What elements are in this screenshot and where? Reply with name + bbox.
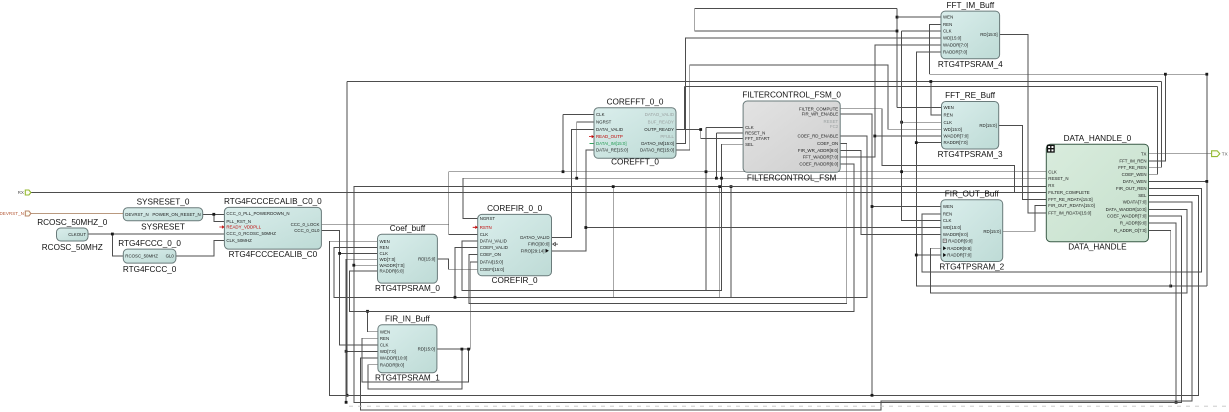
svg-text:FIR_WR_ENABLE: FIR_WR_ENABLE [802,112,839,117]
svg-text:Coef_buff: Coef_buff [390,224,426,233]
junction [111,233,114,236]
wire COREFFT DATAO_IM to FFT_IM_Buff WD [676,38,941,143]
svg-text:FFT_IM_REN: FFT_IM_REN [1119,159,1146,164]
svg-text:RADDR[6:0]: RADDR[6:0] [380,269,404,274]
wire into Coef_buff WD [346,258,377,260]
junction [612,185,615,188]
svg-text:RADDR[9:0]: RADDR[9:0] [948,239,972,244]
svg-text:REN: REN [380,245,389,250]
junction [461,348,464,351]
junction [871,205,874,208]
svg-text:RCOSC_50MHZ: RCOSC_50MHZ [42,243,103,252]
svg-text:FIRO[29:14]: FIRO[29:14] [521,248,545,253]
svg-text:FFT_START: FFT_START [745,136,770,141]
svg-text:RTG4FCCC_0: RTG4FCCC_0 [123,265,177,274]
wire into FFT_RE_Buff CLK [902,121,942,123]
junction [346,394,349,397]
junction [929,80,932,83]
svg-text:FIR_OUT_RDATA[15:0]: FIR_OUT_RDATA[15:0] [1048,203,1094,208]
svg-text:COEFI[15:0]: COEFI[15:0] [480,267,504,272]
wire FIR_WR_ENABLE drop to bottom trunk [840,114,872,395]
wire COEF_RADDR loop to Coef_buff RADDR [349,164,854,311]
svg-text:DATAO_RE[15:0]: DATAO_RE[15:0] [640,148,674,153]
junction [584,226,587,229]
svg-text:WADDR[7:0]: WADDR[7:0] [380,263,405,268]
svg-text:RSTN: RSTN [480,225,492,230]
svg-text:DATAI_VALID: DATAI_VALID [480,239,507,244]
svg-text:DATAI[15:0]: DATAI[15:0] [480,260,503,265]
svg-text:RADDR[7:0]: RADDR[7:0] [947,253,971,258]
wire COREFFT OUTP_READY to FILTERCONTROL FFT_START [676,130,743,139]
svg-text:DATAO_VALID: DATAO_VALID [520,235,549,240]
svg-text:WADDR[7:0]: WADDR[7:0] [943,43,968,48]
block FILTERCONTROL_FSM_0 [742,91,841,183]
svg-text:COREFIR_0_0: COREFIR_0_0 [487,204,543,213]
junction [1164,73,1167,76]
wire FFT_RE_Buff RD to FFT_RE_RDATA [999,125,1047,199]
svg-text:TX: TX [1222,151,1228,156]
block RCOSC_50MHZ_0 [37,218,108,252]
svg-text:COEFI_VALID: COEFI_VALID [480,245,508,250]
svg-text:PLL_RST_N: PLL_RST_N [226,219,251,224]
wire into FILTERCONTROL CLK [706,126,743,128]
wire FIR_OUT_REN loop to FIR_OUT_Buff REN [922,188,1201,272]
block FIR_OUT_Buff (RTG4TPSRAM_2) [939,189,1004,271]
svg-text:SYSRESET_0: SYSRESET_0 [137,198,190,207]
svg-text:NGRST: NGRST [480,216,496,221]
block SYSRESET_0 [123,198,202,232]
svg-text:FIR_WR_ADDR[9:0]: FIR_WR_ADDR[9:0] [798,148,838,153]
svg-text:DATA_HANDLE: DATA_HANDLE [1068,243,1127,252]
svg-text:RTG4TPSRAM_0: RTG4TPSRAM_0 [375,284,440,293]
wire FFT_IM_REN riser [1149,74,1166,161]
svg-text:CCC_0_GL0: CCC_0_GL0 [294,228,320,233]
wire bottom rung to R_ADDR_O loop [1171,285,1207,287]
svg-text:FFT_IM_Buff: FFT_IM_Buff [946,1,994,10]
svg-text:R_ADDR_O[7:0]: R_ADDR_O[7:0] [1114,228,1146,233]
junction [352,264,355,267]
junction [1175,401,1178,404]
junction [1205,73,1208,76]
wire top trunk y86 [684,86,1157,88]
svg-text:SEL: SEL [745,142,754,147]
svg-text:FFT_WADDR[7:0]: FFT_WADDR[7:0] [803,155,838,160]
wire CLKOUT to CCC_0_RCOSC_50MHZ [88,233,224,235]
block FIR_IN_Buff (RTG4TPSRAM_1) [375,314,440,382]
svg-text:RD[15:0]: RD[15:0] [979,123,996,128]
svg-text:RD[15:0]: RD[15:0] [980,32,997,37]
wire branch to PLL_RST_N [214,214,225,221]
svg-text:WD[15:0]: WD[15:0] [943,225,961,230]
wire branch to RTG4FCCC RCOSC_50MHZ [112,234,123,256]
wire drop to FFT_IM_Buff REN [930,24,941,74]
svg-text:R_ADDR[9:0]: R_ADDR[9:0] [1120,221,1147,226]
wire COEF_WADDR loop up to DATA_HANDLE RX [354,187,1182,403]
wire DEVRST_N [31,213,123,215]
svg-text:DEVRST_N: DEVRST_N [125,212,148,217]
wire COREFIR COEFI_VALID drop [455,248,478,298]
svg-text:COEF_ON: COEF_ON [817,141,838,146]
svg-text:BUF_READY: BUF_READY [648,120,674,125]
svg-text:COEF_ON: COEF_ON [480,252,501,257]
svg-text:COREFIR_0: COREFIR_0 [492,276,538,285]
svg-text:WEN: WEN [380,239,390,244]
wire U loop under FIR_IN_Buff [368,349,462,389]
wire SEL loop around bottom to Coef_buff WEN [329,196,1198,396]
svg-text:POWER_ON_RESET_N: POWER_ON_RESET_N [152,212,200,217]
svg-text:FFT_RE_REN: FFT_RE_REN [1118,165,1146,170]
svg-text:WEN: WEN [943,15,953,20]
svg-text:RESET_N: RESET_N [745,131,765,136]
wire COREFIR DATAO_VALID to COREFFT DATAI_VALID [552,130,595,238]
svg-text:CCC_0_PLL_POWERDOWN_N: CCC_0_PLL_POWERDOWN_N [226,211,289,216]
wire DATA_WEN trunk down right side [1206,74,1208,286]
junction [366,310,369,313]
svg-text:FIR_OUT_Buff: FIR_OUT_Buff [945,189,1000,198]
wire riser under COREFFT [612,187,614,298]
junction [720,177,723,180]
junction [896,30,899,33]
wire top trunk y8 [695,7,897,9]
wire into FIR_IN_Buff REN [362,337,378,339]
junction [575,177,578,180]
wire COREFIR DATAI_VALID loop to FILTERCONTROL SEL [462,144,743,290]
svg-text:RTG4TPSRAM_2: RTG4TPSRAM_2 [939,263,1004,272]
svg-text:WD[15:0]: WD[15:0] [944,127,962,132]
wire into COREFFT NGRST [577,121,594,123]
svg-text:RCOSC_50MHZ_0: RCOSC_50MHZ_0 [37,218,108,227]
block FFT_IM_Buff (RTG4TPSRAM_4) [938,1,1003,69]
svg-text:WADDR[10:0]: WADDR[10:0] [380,356,407,361]
svg-text:COEF_RD_ENABLE: COEF_RD_ENABLE [797,133,838,138]
svg-text:CLK: CLK [943,218,952,223]
wire into FFT_RE_Buff WEN [897,106,942,108]
wire FIR_IN_Buff RD to COREFIR DATAI [437,262,478,349]
svg-text:DATA_WEN: DATA_WEN [1123,179,1147,184]
junction [345,401,348,404]
svg-text:CLK: CLK [1048,169,1057,174]
junction [454,296,457,299]
wire CCC_0_LOCK to COREFIR column [321,223,448,225]
svg-text:RX: RX [1048,183,1054,188]
input port RX [18,190,31,195]
svg-text:FFT_IM_RDATA[15:0]: FFT_IM_RDATA[15:0] [1048,210,1091,215]
wire FILTER_COMPUTE to FILTER_COMPLETE [840,109,1014,193]
wire global CLK trunk to DATA_HANDLE CLK [449,171,1047,173]
svg-text:RTG4TPSRAM_1: RTG4TPSRAM_1 [375,374,440,383]
svg-text:WDATA[7:0]: WDATA[7:0] [1123,200,1147,205]
svg-text:SYSRESET: SYSRESET [141,223,185,232]
wire left trunk riser x347 [346,82,348,396]
wire POWER_ON_RESET_N to CCC_0_PLL_POWERDOWN_N [203,213,225,215]
svg-text:RTG4FCCC_0_0: RTG4FCCC_0_0 [118,239,181,248]
junction [915,254,918,257]
svg-text:FIR_OUT_REN: FIR_OUT_REN [1116,186,1147,191]
junction [873,135,876,138]
wire COEF_WEN riser [1149,87,1158,175]
svg-text:WD[15:0]: WD[15:0] [943,36,961,41]
svg-text:CCC_0_LOCK: CCC_0_LOCK [291,222,320,227]
wire branch to FIR_IN_Buff WD [346,350,378,352]
svg-text:TX: TX [1141,151,1147,156]
wire WEN riser [896,8,898,107]
svg-text:COEF_WEN: COEF_WEN [1122,172,1147,177]
svg-text:PFULL: PFULL [660,134,674,139]
svg-text:CLK: CLK [943,29,952,34]
wire reset riser to FILTERCONTROL RESET_N [715,133,717,178]
wire FIR_OUT_Buff RD to FIR_OUT_RDATA [1003,206,1047,232]
wire CCC_0_GL0 down to FIR_IN_Buff CLK [321,231,378,346]
svg-text:WADDR[7:0]: WADDR[7:0] [944,134,969,139]
wire drop joining OUTP_READY node [683,87,685,130]
svg-text:WEN: WEN [943,204,953,209]
svg-text:FIRO[30:0]: FIRO[30:0] [528,242,549,247]
svg-text:READ_OUTP: READ_OUTP [596,134,623,139]
junction [730,185,733,188]
svg-text:RD[15:0]: RD[15:0] [418,256,435,261]
svg-text:RADDR[9:0]: RADDR[9:0] [380,362,404,367]
svg-text:FIR_IN_Buff: FIR_IN_Buff [385,314,431,323]
svg-text:FFT_RE_Buff: FFT_RE_Buff [945,91,996,100]
svg-text:RCOSC_50MHZ: RCOSC_50MHZ [125,253,158,258]
svg-text:FILTER_COMPLETE: FILTER_COMPLETE [1048,190,1089,195]
wire branch to COREFFT DATAI_RE [586,150,594,227]
wire WDATA loop to FIR_IN_Buff WADDR [361,202,1193,410]
junction [1205,180,1208,183]
wire reset drop to COREFIR NGRST [463,178,478,218]
wire CLK branch riser to COREFFT [562,114,564,171]
svg-text:RADDR[7:0]: RADDR[7:0] [943,50,967,55]
wire riser x731 [730,187,732,298]
wire Coef_buff RD to COREFIR COEFI [437,259,477,269]
junction [699,128,702,131]
junction [871,394,874,397]
block RTG4FCCCECALIB_C0_0 [219,197,322,259]
wire DATA_WEN stub [1149,180,1207,182]
junction [1169,285,1172,288]
wire branch to FFT_RE_Buff RADDR [916,142,941,144]
block FFT_RE_Buff (RTG4TPSRAM_3) [938,91,1003,159]
block DATA_HANDLE_0 [1046,134,1148,252]
junction [212,213,215,216]
svg-text:COREFFT_0_0: COREFFT_0_0 [607,98,664,107]
svg-text:RTG4FCCCECALIB_C0_0: RTG4FCCCECALIB_C0_0 [224,197,322,206]
dashed sheet boundary line [349,405,1228,407]
svg-text:SEL: SEL [1138,193,1147,198]
svg-text:WD[7:0]: WD[7:0] [380,257,396,262]
wire COREFFT DATAO_RE to FFT_RE_Buff WD [676,65,942,150]
wire CLK branch to FIR_OUT_Buff CLK [902,172,941,221]
svg-text:DEVRST_N: DEVRST_N [0,211,24,216]
wire RX trunk to DATA_HANDLE FILTER_COMPLETE row [31,192,1046,194]
svg-text:WEN: WEN [944,105,954,110]
junction [896,16,899,19]
wire FFT_IM_Buff RD to FFT_IM_RDATA [1000,35,1047,213]
svg-text:OUTP_READY: OUTP_READY [644,127,674,132]
junction [562,170,565,173]
wire branch to FIR_OUT_Buff RADDR[7:0] [916,254,941,256]
wire top trunk y81 [347,81,1161,83]
svg-text:COEF_RADDR[6:0]: COEF_RADDR[6:0] [799,161,838,166]
svg-text:CLK: CLK [380,251,389,256]
junction [345,350,348,353]
svg-text:FILTERCONTROL_FSM_0: FILTERCONTROL_FSM_0 [742,91,841,100]
svg-text:RD[15:0]: RD[15:0] [983,229,1000,234]
wire branch to FIR_OUT_Buff WEN [872,206,941,208]
junction [715,177,718,180]
svg-text:WADDR[9:0]: WADDR[9:0] [943,232,968,237]
wire R_ADDR_O loop to FFT_IM_Buff RADDR [916,52,1170,286]
svg-text:CLK_50MHZ: CLK_50MHZ [226,238,252,243]
svg-text:WEN: WEN [380,329,390,334]
wire into FILTERCONTROL RESET_N [716,132,743,134]
svg-text:CLK: CLK [596,112,605,117]
wire COEF_RD_ENABLE loop to Coef_buff REN [334,136,867,297]
svg-text:DATAI_IM[15:0]: DATAI_IM[15:0] [596,141,627,146]
svg-text:READY_VDDPLL: READY_VDDPLL [226,225,261,230]
svg-text:COEF_WADDR[7:0]: COEF_WADDR[7:0] [1107,213,1147,218]
wire reset riser to COREFFT NGRST [576,122,578,178]
junction [718,185,721,188]
svg-text:CLK: CLK [380,343,389,348]
junction [900,121,903,124]
wire COEF_ON loop to COREFIR COEF_ON [469,143,847,303]
wire into FFT_IM_Buff CLK [902,30,941,32]
wire clock drop to COREFIR CLK [449,172,478,235]
svg-text:RTG4TPSRAM_4: RTG4TPSRAM_4 [938,60,1003,69]
wire CLK branch riser to FILTERCONTROL [705,127,707,290]
wire R_ADDR drop to bottom trunk [1149,223,1177,402]
wire GL0 to CLK_50MHZ [176,241,225,256]
svg-text:REN: REN [943,22,952,27]
svg-text:DATAI_RE[15:0]: DATAI_RE[15:0] [596,148,628,153]
block RTG4FCCC_0_0 [118,239,181,274]
svg-text:DATA_HANDLE_0: DATA_HANDLE_0 [1064,134,1132,143]
svg-text:DATAO_VALID: DATAO_VALID [645,112,674,117]
svg-text:RTG4TPSRAM_3: RTG4TPSRAM_3 [938,150,1003,159]
svg-text:DATA_WADDR[10:0]: DATA_WADDR[10:0] [1106,207,1147,212]
wire DATA_WADDR loop to FIR_OUT_Buff RADDR[9:8] [931,210,1187,294]
junction [915,141,918,144]
svg-text:NGRST: NGRST [596,120,612,125]
block Coef_buff (RTG4TPSRAM_0) [375,224,440,293]
svg-text:REN: REN [944,113,953,118]
wire riser to FIR_IN_Buff WEN [368,311,378,331]
wire branch to Coef_buff CLK [340,252,378,254]
svg-text:CLK: CLK [745,125,754,130]
wire rung y31 [695,8,897,31]
wire drop to FFT_RE_Buff REN [931,82,942,116]
wire into FIR_IN_Buff RADDR [368,364,378,366]
wire TX to port [1149,153,1212,155]
wire FFT_RE_REN riser [1149,82,1162,168]
svg-text:RTG4FCCCECALIB_C0: RTG4FCCCECALIB_C0 [229,250,318,259]
svg-text:DATAO_IM[15:0]: DATAO_IM[15:0] [641,141,674,146]
svg-text:DATAI_VALID: DATAI_VALID [596,127,623,132]
wire FIR_WR_ADDR to FIR_OUT_Buff WADDR [840,150,941,234]
svg-text:RX: RX [18,190,24,195]
svg-text:FC2: FC2 [830,124,839,129]
wire riser left of FILTERCONTROL [719,187,721,298]
svg-text:COREFFT_0: COREFFT_0 [611,158,659,167]
svg-text:CCC_0_RCOSC_50MHZ: CCC_0_RCOSC_50MHZ [226,231,276,236]
junction [900,170,903,173]
svg-text:RD[15:0]: RD[15:0] [418,347,435,352]
wire branch to FFT_RE_Buff WADDR [875,135,942,137]
wire U loop under FIR_IN_Buff outer [362,338,469,382]
wire Coef WD riser [345,259,347,402]
svg-text:WD[7:0]: WD[7:0] [380,349,396,354]
svg-text:REN: REN [943,211,952,216]
block COREFFT_0_0 [589,98,676,167]
input port DEVRST_N [0,211,31,216]
wire top trunk y74 [930,73,1207,75]
svg-text:RADDR[7:0]: RADDR[7:0] [944,140,968,145]
svg-text:CLK: CLK [480,232,489,237]
svg-text:FILTERCONTROL_FSM: FILTERCONTROL_FSM [747,173,837,182]
output port TX [1212,151,1228,157]
wire CLK riser through FFT buffers [901,31,903,172]
svg-text:CLK: CLK [944,120,953,125]
junction [705,170,708,173]
svg-text:REN: REN [380,336,389,341]
wire global RESET trunk to DATA_HANDLE RESET_N [463,177,1046,179]
wire into COREFFT CLK [563,113,594,115]
junction [467,348,470,351]
wire branch to Coef_buff WADDR [354,264,378,266]
svg-text:FFT_RE_RDATA[15:0]: FFT_RE_RDATA[15:0] [1048,197,1092,202]
svg-text:RADDR[9:8]: RADDR[9:8] [947,246,971,251]
svg-text:RESET_N: RESET_N [1048,176,1068,181]
wire into FFT_IM_Buff WEN [897,16,941,18]
wire COREFIR FIRO[29:14] to FIR_OUT_Buff WD [552,228,941,251]
svg-text:GL0: GL0 [166,253,175,258]
block COREFIR_0_0 [473,204,558,285]
junction [338,252,341,255]
wire FFT_WADDR riser to FFT_IM_Buff WADDR [840,45,941,157]
svg-text:CLKOUT: CLKOUT [68,232,86,237]
